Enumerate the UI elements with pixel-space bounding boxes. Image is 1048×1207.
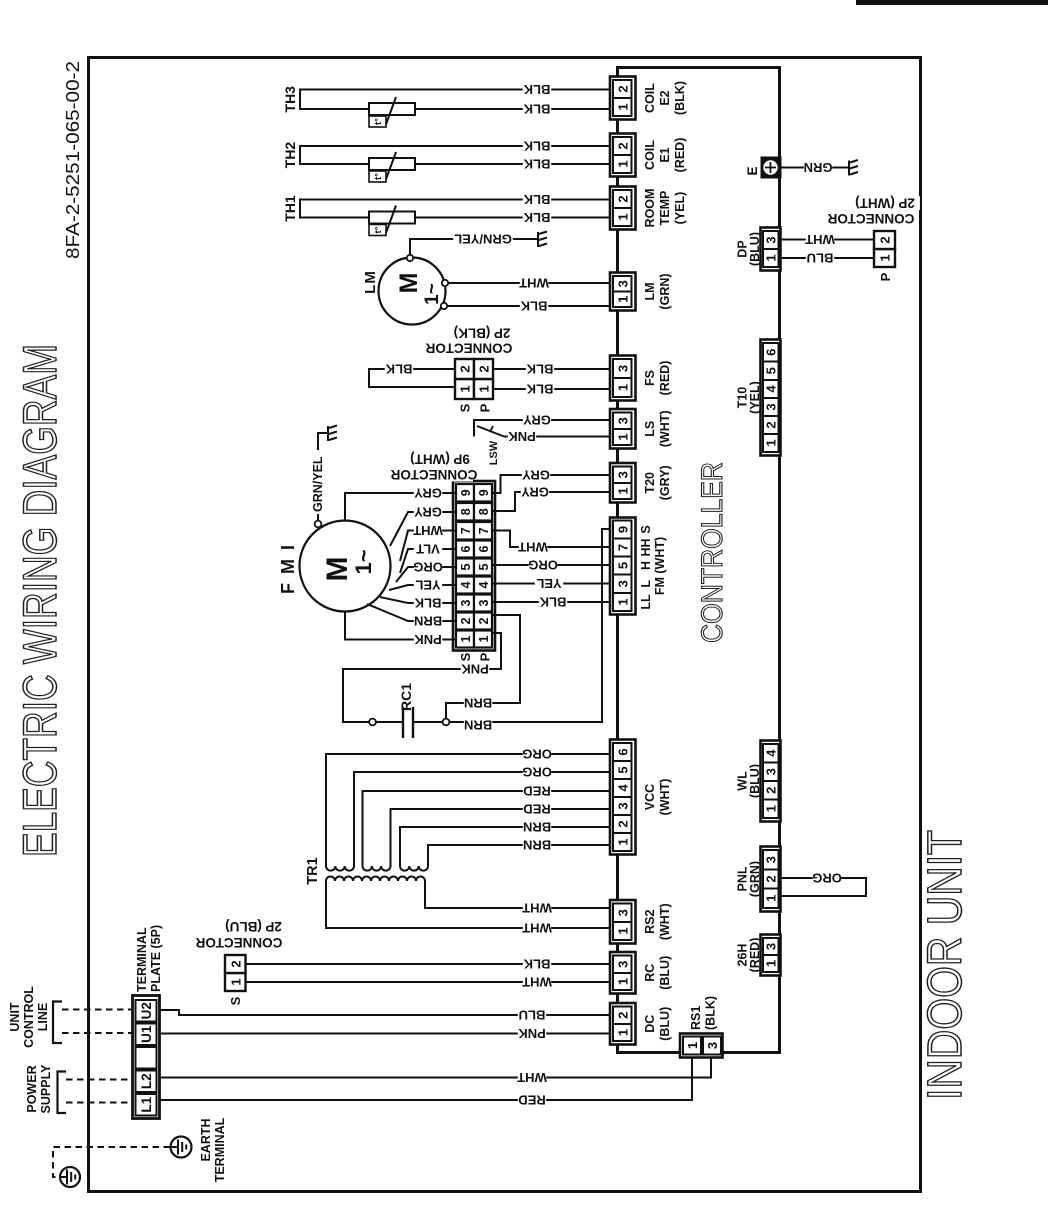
svg-text:1: 1 <box>615 838 630 845</box>
svg-text:9: 9 <box>459 489 473 496</box>
wire BLK P2 to FS pin3 <box>493 368 610 370</box>
svg-text:1: 1 <box>615 978 630 985</box>
svg-text:BRN: BRN <box>464 717 492 732</box>
svg-text:BLK: BLK <box>526 362 553 377</box>
svg-text:PNK: PNK <box>518 1026 546 1041</box>
svg-text:(BLU): (BLU) <box>748 232 762 266</box>
svg-text:S: S <box>639 525 653 533</box>
svg-text:WHT: WHT <box>522 921 552 936</box>
svg-text:(BLU): (BLU) <box>748 764 762 798</box>
svg-text:1: 1 <box>615 927 630 934</box>
wire dashed L2 line <box>66 1079 133 1081</box>
svg-text:2: 2 <box>615 195 630 202</box>
svg-text:(BLK): (BLK) <box>673 81 687 115</box>
svg-text:6: 6 <box>477 545 491 552</box>
switch LSW <box>477 426 504 437</box>
svg-text:(RED): (RED) <box>658 361 672 396</box>
svg-text:COIL: COIL <box>643 140 657 170</box>
svg-text:3: 3 <box>477 599 491 606</box>
svg-text:S: S <box>228 996 243 1005</box>
svg-text:9: 9 <box>615 526 630 533</box>
svg-text:ORG: ORG <box>522 765 552 780</box>
svg-text:(WHT): (WHT) <box>658 903 672 940</box>
svg-text:WHT: WHT <box>413 523 443 538</box>
svg-text:BLK: BLK <box>523 192 550 207</box>
svg-text:2: 2 <box>764 421 779 428</box>
wire GRN E to earth <box>781 167 848 169</box>
label 2P (BLK) CONNECTOR <box>447 326 517 340</box>
svg-text:(YEL): (YEL) <box>748 381 762 414</box>
wire GRY 9P-P9 to T20 pin3 <box>492 475 610 493</box>
svg-text:H: H <box>639 561 653 570</box>
motor FMI <box>278 521 391 612</box>
svg-text:3: 3 <box>705 1042 720 1049</box>
svg-text:RC: RC <box>643 964 657 982</box>
wire dashed L1 line <box>66 1102 133 1104</box>
svg-text:GRN/YEL: GRN/YEL <box>311 456 325 512</box>
wire dashed U2 line <box>62 1009 133 1011</box>
svg-text:WHT: WHT <box>517 1070 547 1085</box>
capacitor RC1 <box>369 683 449 738</box>
svg-text:8: 8 <box>477 508 491 515</box>
svg-text:(GRN): (GRN) <box>658 273 672 309</box>
connector 2P (BLU) S <box>225 955 246 1005</box>
svg-text:6: 6 <box>615 748 630 755</box>
svg-text:9P (WHT): 9P (WHT) <box>410 451 470 466</box>
svg-text:RED: RED <box>523 784 550 799</box>
svg-text:2: 2 <box>615 1012 630 1019</box>
svg-text:BLK: BLK <box>523 157 550 172</box>
svg-text:8: 8 <box>459 508 473 515</box>
svg-text:2P (BLU): 2P (BLU) <box>225 919 282 934</box>
svg-text:TERMINAL: TERMINAL <box>135 927 149 992</box>
svg-text:3: 3 <box>615 802 630 809</box>
svg-text:2P (WHT): 2P (WHT) <box>855 195 915 210</box>
svg-text:BLK: BLK <box>539 595 566 610</box>
svg-text:BRN: BRN <box>464 695 492 710</box>
transformer TR1 <box>305 857 428 884</box>
svg-text:YEL: YEL <box>415 577 440 592</box>
svg-text:1: 1 <box>615 433 630 440</box>
svg-text:T20: T20 <box>643 472 657 494</box>
ground chassis FMI <box>328 426 337 442</box>
svg-text:BLK: BLK <box>523 139 550 154</box>
svg-text:5: 5 <box>477 563 491 570</box>
svg-text:1: 1 <box>458 385 473 392</box>
svg-text:TH2: TH2 <box>282 142 298 169</box>
svg-text:LM: LM <box>362 270 379 294</box>
svg-text:1~: 1~ <box>351 549 376 574</box>
svg-text:(GRN): (GRN) <box>748 861 762 897</box>
svg-text:6: 6 <box>459 545 473 552</box>
svg-text:1: 1 <box>615 598 630 605</box>
wire PNK LS pin1 <box>504 436 610 438</box>
connector VCC (WHT) <box>610 740 672 855</box>
svg-text:FS: FS <box>643 370 657 386</box>
thermistor TH2 <box>282 139 610 183</box>
connector RS2 (WHT) <box>610 900 672 944</box>
wire WHT DP pin3 to 2P <box>782 239 874 241</box>
wire BLU DP pin1 to 2P <box>782 257 874 259</box>
svg-text:1: 1 <box>477 635 491 642</box>
connector DC (BLU) <box>610 1003 672 1045</box>
svg-text:WHT: WHT <box>522 901 552 916</box>
svg-text:5: 5 <box>764 367 779 374</box>
bracket unit control line <box>53 1002 62 1044</box>
svg-text:FM (WHT): FM (WHT) <box>653 537 667 595</box>
svg-text:RS1: RS1 <box>689 1006 703 1030</box>
wire GRN/YEL LM earth <box>410 239 537 255</box>
svg-text:PNK: PNK <box>461 661 489 676</box>
svg-text:UNIT: UNIT <box>8 1002 22 1032</box>
svg-text:1: 1 <box>615 160 630 167</box>
svg-text:1: 1 <box>615 1029 630 1036</box>
wire PNK U1 to DC pin1 <box>160 1033 611 1035</box>
svg-text:4: 4 <box>459 581 473 588</box>
svg-text:2: 2 <box>477 617 491 624</box>
svg-text:(BLU): (BLU) <box>658 956 672 990</box>
connector COIL E1 (RED) <box>610 134 687 177</box>
svg-text:ELECTRIC WIRING DIAGRAM: ELECTRIC WIRING DIAGRAM <box>13 344 66 857</box>
connector 9P (WHT) S/P <box>453 481 495 661</box>
ground chassis E <box>849 160 858 176</box>
border frame <box>89 58 921 1192</box>
wire ORG TR1 to VCC pin6 <box>326 754 610 866</box>
wire BLK 9P-P3 to FM pin1 <box>492 601 610 603</box>
connector LM (GRN) <box>610 273 672 311</box>
wire YEL 9P-P4 to FM pin3 <box>492 583 610 585</box>
motor LM <box>362 255 448 325</box>
svg-text:1: 1 <box>764 895 779 902</box>
svg-text:GRY: GRY <box>521 485 549 500</box>
wire BRN RC1 to FM pin9 <box>449 529 610 722</box>
ground chassis LM <box>538 232 547 248</box>
svg-text:BLK: BLK <box>523 210 550 225</box>
wire dashed earth link <box>53 1147 170 1177</box>
thermistor TH1 <box>282 192 610 236</box>
wire RED TR1 to VCC pin4 <box>363 791 611 866</box>
svg-text:t°: t° <box>373 118 384 125</box>
wire BLK P1 to FS pin1 <box>493 388 610 390</box>
svg-text:5: 5 <box>615 562 630 569</box>
connector FS (RED) <box>610 356 672 401</box>
svg-text:WHT: WHT <box>519 276 549 291</box>
svg-text:VLT: VLT <box>416 541 440 556</box>
connector PNL (GRN) <box>736 847 781 912</box>
svg-text:LS: LS <box>643 421 657 437</box>
svg-text:1: 1 <box>615 213 630 220</box>
svg-text:L2: L2 <box>139 1073 154 1089</box>
connector FM (WHT) LL/L/H/HH/S <box>610 518 667 615</box>
wire ORG TR1 to VCC pin5 <box>354 772 610 866</box>
svg-text:WHT: WHT <box>522 975 552 990</box>
svg-text:t°: t° <box>373 226 384 233</box>
svg-text:3: 3 <box>615 909 630 916</box>
svg-text:(RED): (RED) <box>673 138 687 173</box>
svg-text:BLK: BLK <box>523 957 550 972</box>
svg-text:1: 1 <box>615 296 630 303</box>
svg-text:P: P <box>478 652 493 661</box>
svg-text:E2: E2 <box>658 90 672 105</box>
label 2P (BLU) CONNECTOR <box>219 920 289 934</box>
svg-text:CONTROL: CONTROL <box>22 986 36 1048</box>
terminal plate (5P) <box>133 925 164 1119</box>
svg-text:CONNECTOR: CONNECTOR <box>195 935 282 950</box>
wire GRY 9P-P8 to T20 pin1 <box>492 492 610 511</box>
svg-text:GRY: GRY <box>414 485 442 500</box>
svg-text:E1: E1 <box>658 147 672 162</box>
svg-text:E: E <box>745 166 760 175</box>
svg-text:ROOM: ROOM <box>643 189 657 228</box>
wire BRN 9P-P2 to RC1 <box>446 615 520 719</box>
terminal E <box>745 157 781 178</box>
svg-text:RED: RED <box>523 802 550 817</box>
svg-text:BLK: BLK <box>520 299 547 314</box>
wires FMI motor leads to 9P connector <box>345 612 456 640</box>
svg-text:t°: t° <box>373 173 384 180</box>
svg-text:8FA-2-5251-065-00-2: 8FA-2-5251-065-00-2 <box>62 61 83 259</box>
svg-text:4: 4 <box>764 749 779 757</box>
svg-text:RC1: RC1 <box>398 683 414 711</box>
svg-text:LM: LM <box>643 282 657 300</box>
wire WHT LM pin3 <box>448 282 610 284</box>
svg-text:2: 2 <box>458 365 473 372</box>
wire BRN TR1 to VCC pin2 <box>400 827 610 866</box>
svg-text:HH: HH <box>639 538 653 556</box>
svg-text:SUPPLY: SUPPLY <box>39 1064 53 1114</box>
svg-text:BRN: BRN <box>414 613 442 628</box>
wire WHT TR1 primary to RS2 pin1 <box>326 881 610 928</box>
earth terminal (outer) <box>60 1167 80 1187</box>
svg-text:RED: RED <box>518 1093 545 1108</box>
svg-text:TH1: TH1 <box>282 195 298 222</box>
svg-text:U1: U1 <box>139 1025 154 1043</box>
connector 2P (BLK) S/P <box>455 359 493 412</box>
svg-text:(GRY): (GRY) <box>658 465 672 500</box>
svg-text:3: 3 <box>764 403 779 410</box>
svg-text:BLK: BLK <box>523 102 550 117</box>
wire WHT L2 to RS1 pin3 <box>160 1055 712 1078</box>
svg-text:LSW: LSW <box>488 440 500 465</box>
wire ORG 9P-P5 to FM pin5 <box>492 564 610 566</box>
svg-text:1: 1 <box>615 103 630 110</box>
svg-text:DC: DC <box>643 1015 657 1033</box>
svg-text:2: 2 <box>764 787 779 794</box>
svg-text:TERMINAL: TERMINAL <box>213 1117 227 1182</box>
connector 26H (RED) <box>736 935 781 976</box>
svg-text:ORG: ORG <box>812 871 842 886</box>
svg-text:ORG: ORG <box>413 559 443 574</box>
svg-text:2: 2 <box>615 142 630 149</box>
scan artifact black bar <box>856 0 1048 5</box>
svg-text:4: 4 <box>477 581 491 588</box>
svg-text:PNK: PNK <box>414 632 442 647</box>
svg-text:2: 2 <box>459 617 473 624</box>
svg-text:P: P <box>478 403 493 412</box>
svg-text:1: 1 <box>764 439 779 446</box>
svg-text:TEMP: TEMP <box>658 191 672 226</box>
svg-text:RS2: RS2 <box>643 910 657 934</box>
svg-text:P: P <box>878 272 893 281</box>
svg-text:BLU: BLU <box>519 1008 546 1023</box>
connector RC (BLU) <box>610 952 672 994</box>
svg-text:2: 2 <box>764 875 779 882</box>
svg-text:3: 3 <box>764 236 779 243</box>
svg-text:L: L <box>639 580 653 588</box>
svg-text:3: 3 <box>764 943 779 950</box>
svg-text:BLK: BLK <box>523 82 550 97</box>
svg-text:1: 1 <box>685 1042 700 1049</box>
svg-text:1: 1 <box>229 978 244 985</box>
thermistor TH3 <box>282 82 610 127</box>
svg-text:VCC: VCC <box>643 784 657 810</box>
svg-text:3: 3 <box>615 417 630 424</box>
wire BLK 2P-BLU to RC pin3 <box>246 963 611 965</box>
svg-text:1: 1 <box>615 487 630 494</box>
svg-text:ORG: ORG <box>528 558 558 573</box>
svg-text:GRY: GRY <box>523 413 551 428</box>
svg-text:6: 6 <box>764 349 779 356</box>
svg-text:GRY: GRY <box>522 468 550 483</box>
svg-text:BLK: BLK <box>526 382 553 397</box>
wire RED L1 to RS1 pin1 <box>160 1055 693 1100</box>
svg-text:3: 3 <box>615 280 630 287</box>
wire RED TR1 to VCC pin3 <box>391 809 611 866</box>
svg-text:CONNECTOR: CONNECTOR <box>425 340 512 355</box>
svg-text:2: 2 <box>615 85 630 92</box>
svg-text:BRN: BRN <box>523 820 551 835</box>
svg-text:PNK: PNK <box>508 429 536 444</box>
svg-text:2: 2 <box>615 820 630 827</box>
svg-text:7: 7 <box>477 527 491 534</box>
svg-text:L1: L1 <box>139 1096 154 1112</box>
svg-text:WHT: WHT <box>518 540 548 555</box>
svg-text:3: 3 <box>615 580 630 587</box>
svg-text:3: 3 <box>615 471 630 478</box>
svg-text:1: 1 <box>878 254 893 261</box>
controller box <box>618 68 780 1053</box>
svg-text:PLATE (5P): PLATE (5P) <box>149 925 163 992</box>
label 2P (WHT) CONNECTOR <box>850 196 920 210</box>
svg-text:FMI: FMI <box>278 536 298 594</box>
svg-text:5: 5 <box>615 766 630 773</box>
svg-text:GRN: GRN <box>804 160 833 175</box>
connector LS (WHT) <box>610 409 672 449</box>
svg-text:GRN/YEL: GRN/YEL <box>454 231 512 246</box>
svg-text:1~: 1~ <box>422 283 443 305</box>
svg-text:(BLK): (BLK) <box>704 996 718 1030</box>
wire BRN TR1 to VCC pin1 <box>428 845 610 866</box>
wire PNK 9P-P1 to RC1 <box>343 633 501 722</box>
connector 2P (WHT) P <box>874 231 895 281</box>
svg-text:7: 7 <box>459 527 473 534</box>
connector ROOM TEMP (YEL) <box>610 187 687 230</box>
svg-text:S: S <box>458 403 473 412</box>
svg-text:(WHT): (WHT) <box>658 410 672 447</box>
svg-text:2: 2 <box>878 236 893 243</box>
svg-text:LINE: LINE <box>36 1003 50 1031</box>
connector T20 (GRY) <box>610 463 672 503</box>
svg-text:YEL: YEL <box>536 576 561 591</box>
wire BLK LM pin1 <box>447 305 610 307</box>
svg-text:5: 5 <box>459 563 473 570</box>
svg-text:BLU: BLU <box>807 251 834 266</box>
connector T10 (YEL) <box>736 340 781 456</box>
svg-text:BLK: BLK <box>385 361 412 376</box>
wire WHT 2P-BLU to RC pin1 <box>246 981 611 983</box>
svg-text:M: M <box>395 273 423 294</box>
svg-text:(WHT): (WHT) <box>658 779 672 816</box>
wire BLK jumper S2-S1 <box>369 369 455 387</box>
svg-text:4: 4 <box>764 385 779 393</box>
svg-text:WHT: WHT <box>805 232 835 247</box>
svg-text:1: 1 <box>764 254 779 261</box>
svg-text:7: 7 <box>615 544 630 551</box>
wire WHT TR1 primary to RS2 pin3 <box>425 881 610 908</box>
connector RS1 (BLK) <box>680 996 723 1058</box>
svg-text:EARTH: EARTH <box>199 1118 213 1161</box>
svg-text:ORG: ORG <box>522 747 552 762</box>
connector DP (BLU) <box>736 228 781 271</box>
svg-text:CONNECTOR: CONNECTOR <box>390 467 477 482</box>
connector COIL E2 (BLK) <box>610 77 687 120</box>
svg-text:M: M <box>321 557 354 582</box>
svg-text:9: 9 <box>477 489 491 496</box>
svg-text:TR1: TR1 <box>305 857 321 884</box>
svg-text:BLK: BLK <box>414 595 441 610</box>
svg-text:GRY: GRY <box>414 504 442 519</box>
svg-text:2: 2 <box>477 365 492 372</box>
svg-text:1: 1 <box>764 805 779 812</box>
svg-text:U2: U2 <box>139 1002 154 1019</box>
svg-text:1: 1 <box>615 384 630 391</box>
svg-text:COIL: COIL <box>643 83 657 113</box>
earth terminal (inner) <box>171 1137 192 1158</box>
svg-text:CONTROLLER: CONTROLLER <box>696 462 729 643</box>
bracket power supply <box>58 1072 67 1114</box>
svg-text:POWER: POWER <box>25 1065 39 1112</box>
svg-text:4: 4 <box>615 784 630 792</box>
svg-text:BRN: BRN <box>523 838 551 853</box>
svg-text:(RED): (RED) <box>748 938 762 973</box>
svg-text:3: 3 <box>459 599 473 606</box>
wire BLU U2 to DC pin2 <box>160 1010 611 1015</box>
svg-text:1: 1 <box>764 960 779 967</box>
svg-text:INDOOR UNIT: INDOOR UNIT <box>919 830 972 1100</box>
svg-text:CONNECTOR: CONNECTOR <box>827 211 914 226</box>
svg-text:(BLU): (BLU) <box>658 1007 672 1041</box>
wire dashed U1 line <box>62 1032 133 1034</box>
wire GRY LS pin3 <box>474 420 610 437</box>
svg-text:2: 2 <box>229 960 244 967</box>
svg-text:(YEL): (YEL) <box>673 192 687 225</box>
svg-text:TH3: TH3 <box>282 86 298 113</box>
svg-text:1: 1 <box>459 635 473 642</box>
wire GRN/YEL FMI earth <box>318 433 327 521</box>
svg-text:S: S <box>458 652 473 661</box>
wire WHT 9P-P7 to FM pin7 <box>492 531 610 548</box>
svg-text:1: 1 <box>477 385 492 392</box>
label 9P (WHT) CONNECTOR <box>405 452 475 466</box>
wire ORG PNL jumper <box>782 878 866 896</box>
svg-text:3: 3 <box>764 856 779 863</box>
svg-text:2P (BLK): 2P (BLK) <box>454 325 511 340</box>
connector WL (BLU) <box>736 741 781 822</box>
svg-text:3: 3 <box>615 961 630 968</box>
svg-text:3: 3 <box>764 768 779 775</box>
svg-text:3: 3 <box>615 365 630 372</box>
svg-text:LL: LL <box>639 594 653 610</box>
